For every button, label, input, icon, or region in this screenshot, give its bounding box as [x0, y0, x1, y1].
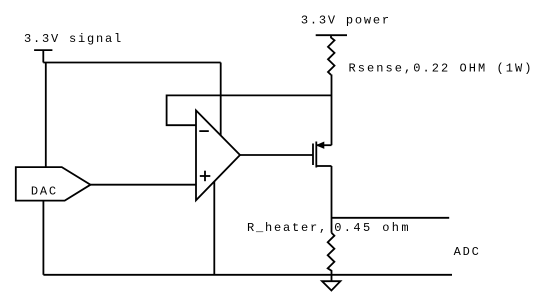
svg-text:ADC: ADC: [454, 245, 481, 259]
resistor R_heater: [328, 233, 335, 281]
wire MOSFET drain to Rsense bottom: [331, 75, 333, 146]
power rail 3.3V signal: [34, 49, 52, 51]
wire DAC output to opamp plus input: [91, 184, 197, 186]
wire down to DAC top: [45, 63, 47, 168]
wire opamp output to MOSFET gate: [240, 154, 313, 156]
wire R_heater node to ADC: [332, 217, 450, 219]
op-amp U1: [196, 110, 240, 200]
transistor Q1: [312, 144, 314, 166]
wire signal-rail to opamp V+: [43, 62, 220, 64]
wire feedback net: [167, 95, 332, 125]
power rail 3.3V power: [316, 34, 347, 36]
svg-text:3.3V power: 3.3V power: [301, 14, 391, 28]
svg-text:R_heater,: R_heater,: [247, 221, 328, 235]
wire DAC bottom stub to ground rail: [42, 201, 44, 275]
wire opamp V+ stub: [220, 63, 222, 136]
svg-text:Rsense,0.22 OHM (1W): Rsense,0.22 OHM (1W): [349, 62, 534, 76]
svg-text:3.3V signal: 3.3V signal: [24, 32, 123, 46]
resistor Rsense: [328, 35, 335, 75]
ground: [322, 281, 340, 290]
svg-text:0.45 ohm: 0.45 ohm: [334, 221, 411, 235]
svg-text:DAC: DAC: [31, 185, 58, 199]
DAC U2: [16, 167, 91, 201]
wire ground rail: [43, 274, 452, 276]
wire MOSFET source down to R_heater: [331, 166, 333, 233]
wire opamp V- stub: [213, 182, 215, 275]
